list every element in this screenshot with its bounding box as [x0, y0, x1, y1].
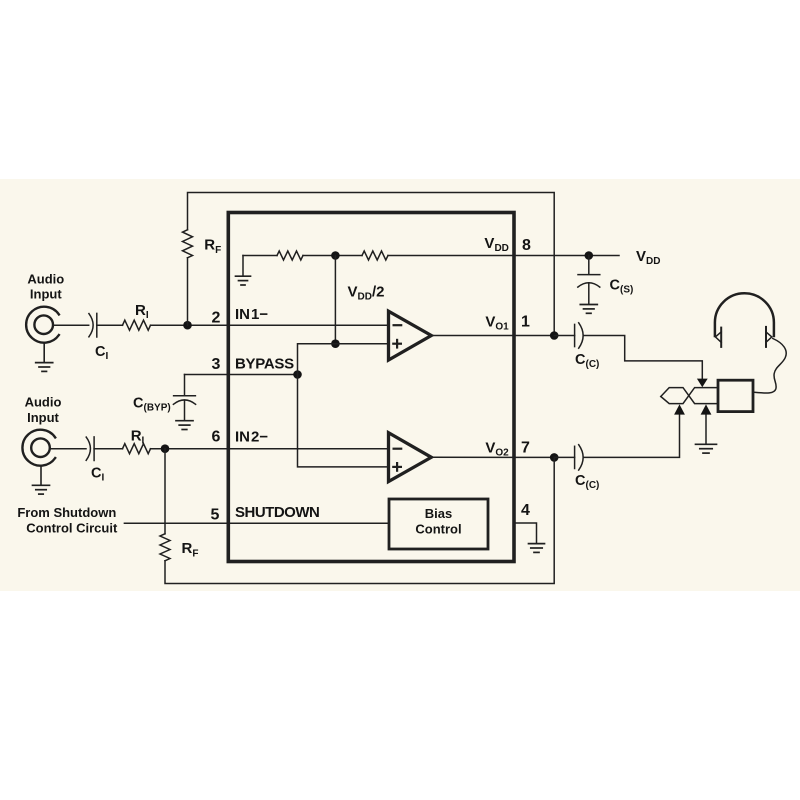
resistor R_F (ch2) [160, 534, 170, 561]
svg-text:Input: Input [27, 410, 59, 425]
capacitor C_(C) ch1 [574, 324, 576, 346]
node V_O2 output [550, 453, 559, 462]
svg-text:1: 1 [521, 313, 530, 330]
wire C_I to R_I (ch1) [97, 324, 123, 326]
headphone plug tip outline [661, 388, 718, 404]
wire C_I to R_I (ch2) [94, 448, 122, 450]
resistor R_F (ch1) [183, 230, 193, 258]
capacitor C_I (ch2) [86, 437, 90, 460]
arrow into plug (ch2) [674, 404, 685, 414]
svg-text:IN2−: IN2− [235, 428, 268, 445]
wire node to R_F (ch2) [164, 449, 166, 534]
node IN2- input [161, 444, 170, 453]
audio input jack J2 [22, 430, 55, 466]
wire node to R_F (ch1) [187, 258, 189, 325]
capacitor C_(BYP) [184, 375, 186, 396]
wire C_C ch2 to plug [554, 456, 574, 458]
wire bypass down to op-amp2 + [298, 375, 389, 467]
IC package outline U1 [228, 213, 514, 562]
svg-text:Input: Input [30, 286, 62, 301]
capacitor C_I (ch1) [89, 314, 93, 337]
wire V_DD pin 8 out to supply [388, 255, 619, 257]
ground (C_BYP) [176, 420, 193, 422]
wire SHUTDOWN pin 5 [124, 522, 389, 524]
wire bypass up to op-amp1 + [298, 344, 389, 375]
op-amp U1B [389, 433, 432, 482]
wire op-amp2 output V_O2 [431, 456, 554, 458]
ground (pin 4) [529, 543, 545, 545]
wire plug sleeve to ground [705, 415, 707, 444]
bias control block [389, 499, 488, 549]
node V_DD supply [585, 251, 594, 260]
arrow into plug (sleeve ground) [701, 404, 712, 414]
node V_DD/2 [331, 251, 340, 260]
svg-text:3: 3 [212, 356, 221, 373]
capacitor C_(C) ch2 [574, 446, 576, 468]
wire R_I to IN2- pin 6 into op-amp2 [151, 448, 389, 450]
svg-text:SHUTDOWN: SHUTDOWN [235, 504, 319, 521]
svg-text:Control: Control [415, 522, 461, 537]
node V_O1 output [550, 331, 559, 340]
headphone jack body [718, 380, 753, 411]
arrow into plug (ch1) [697, 379, 708, 388]
svg-text:IN1−: IN1− [235, 306, 268, 323]
ground (plug sleeve) [696, 443, 717, 445]
headphones cable [754, 339, 787, 394]
wire op-amp1 output V_O1 [431, 335, 554, 337]
op-amp U1A [389, 311, 432, 360]
node op-amp1 + line [331, 339, 340, 348]
wire divider middle [303, 255, 362, 257]
svg-text:From Shutdown: From Shutdown [17, 505, 116, 520]
wire input2 to C_I [50, 448, 86, 450]
wire input1 to C_I [53, 324, 89, 326]
node IN1- input [183, 321, 192, 330]
wire R_F bottom feedback to V_O2 [165, 457, 554, 583]
svg-text:7: 7 [521, 439, 530, 456]
svg-text:Audio: Audio [27, 272, 64, 287]
wire C_C ch1 to plug tip contact [554, 335, 574, 337]
ground (V_DD/2 divider) [242, 256, 244, 276]
svg-text:2: 2 [212, 309, 221, 326]
wire pin 4 to ground [516, 523, 537, 543]
ground (audio input 1) [43, 343, 45, 363]
wire V_DD/2 node down to op-amp1 + [334, 256, 336, 344]
resistor divider right [362, 251, 388, 260]
wire BYPASS pin 3 [185, 374, 298, 376]
svg-text:8: 8 [522, 237, 531, 254]
ground (audio input 2) [40, 466, 42, 485]
svg-text:6: 6 [212, 429, 221, 446]
headphones headband [715, 293, 774, 336]
resistor divider left [277, 251, 303, 260]
ground (C_S) [580, 304, 597, 306]
svg-text:Bias: Bias [425, 506, 452, 521]
svg-text:Audio: Audio [25, 395, 62, 410]
wire divider ground to R (left) [243, 255, 277, 257]
headphones right earpiece [765, 327, 767, 347]
wire R_F top feedback to V_O1 [188, 193, 555, 336]
svg-text:5: 5 [211, 506, 220, 523]
svg-text:4: 4 [521, 502, 530, 519]
resistor R_I (ch2) [123, 444, 151, 454]
node BYPASS [293, 370, 302, 379]
headphone plug sleeve outline [661, 388, 718, 404]
resistor R_I (ch1) [123, 320, 151, 330]
svg-text:Control Circuit: Control Circuit [26, 521, 118, 536]
svg-text:BYPASS: BYPASS [235, 356, 294, 373]
audio input jack J1 [26, 307, 59, 343]
headphones left earpiece [720, 328, 722, 347]
capacitor C_(S) [588, 256, 590, 275]
wire R_I to IN1- pin 2 into op-amp [151, 324, 389, 326]
